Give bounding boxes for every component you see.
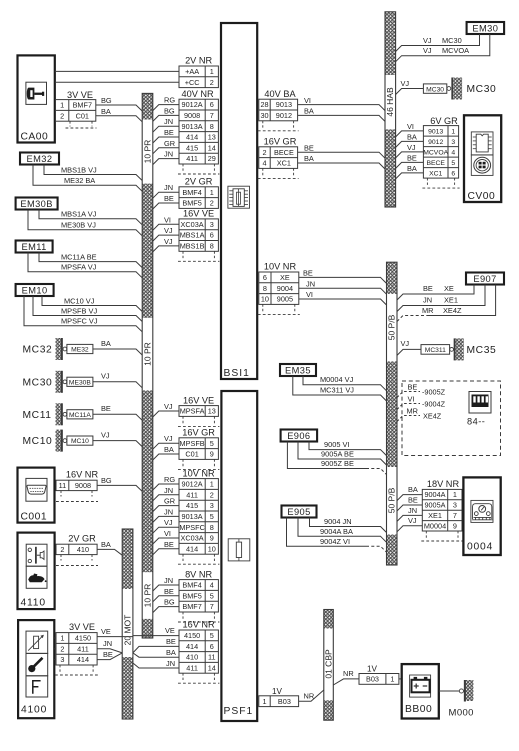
svg-text:GR: GR [164, 139, 175, 148]
svg-text:2: 2 [60, 545, 64, 554]
svg-text:411: 411 [186, 154, 198, 163]
svg-text:MPSFC: MPSFC [179, 523, 205, 532]
svg-text:BA: BA [164, 445, 174, 454]
svg-text:BE: BE [423, 284, 433, 293]
svg-text:GR: GR [164, 497, 175, 506]
svg-text:BG: BG [164, 598, 175, 607]
svg-text:VJ: VJ [408, 516, 417, 525]
svg-text:13: 13 [208, 407, 216, 416]
svg-text:10V NR: 10V NR [264, 262, 297, 272]
svg-text:VE: VE [165, 626, 175, 635]
svg-text:BMF5: BMF5 [182, 591, 201, 600]
svg-text:9005A: 9005A [424, 501, 445, 510]
svg-text:VJ: VJ [401, 79, 410, 88]
svg-text:VJ: VJ [101, 430, 110, 439]
svg-text:VI: VI [408, 394, 415, 403]
svg-text:NR: NR [304, 691, 315, 700]
svg-text:JN: JN [306, 279, 315, 288]
diagnostic connector C001 [18, 468, 55, 523]
svg-text:11: 11 [59, 481, 67, 490]
svg-text:MC10 VJ: MC10 VJ [64, 296, 95, 305]
instrument cluster 0004 [463, 477, 500, 555]
connector table B03 1 [359, 674, 399, 685]
svg-text:3: 3 [60, 655, 64, 664]
svg-text:414: 414 [186, 642, 198, 651]
svg-text:9005Z BE: 9005Z BE [321, 459, 354, 468]
svg-text:BMF7: BMF7 [182, 602, 201, 611]
svg-text:411: 411 [77, 644, 89, 653]
svg-text:VJ: VJ [164, 226, 173, 235]
harness bar 20 MOT [122, 529, 133, 589]
svg-text:2: 2 [262, 148, 266, 157]
svg-text:VJ: VJ [164, 237, 173, 246]
svg-text:28: 28 [260, 100, 268, 109]
svg-text:BECE: BECE [426, 160, 445, 167]
svg-text:414: 414 [77, 655, 89, 664]
harness bar 01 CBP [324, 610, 334, 629]
svg-text:JN: JN [408, 506, 417, 515]
svg-text:VJ: VJ [401, 339, 410, 348]
svg-text:BG: BG [101, 476, 112, 485]
svg-text:C01: C01 [76, 111, 89, 120]
svg-text:1: 1 [451, 128, 455, 135]
wire CA00 +AA [55, 70, 179, 72]
svg-text:5: 5 [451, 160, 455, 167]
svg-text:5: 5 [210, 439, 214, 448]
svg-text:C001: C001 [21, 512, 48, 523]
svg-text:+AA: +AA [185, 67, 199, 76]
svg-text:84--: 84-- [467, 417, 485, 427]
svg-text:13: 13 [208, 133, 216, 142]
svg-text:01 CBP: 01 CBP [323, 649, 333, 679]
svg-text:9: 9 [453, 521, 457, 530]
svg-text:9004A BA: 9004A BA [320, 527, 353, 536]
svg-text:3: 3 [210, 501, 214, 510]
svg-text:XE4Z: XE4Z [443, 306, 462, 315]
svg-text:BE: BE [164, 128, 174, 137]
svg-text:E905: E905 [287, 507, 310, 517]
harness bar 46 HAB [385, 12, 396, 75]
svg-text:NR: NR [343, 669, 354, 678]
ECU CV00 [464, 115, 501, 202]
svg-text:MC311: MC311 [425, 347, 446, 354]
84 DIP switch icon [469, 392, 491, 414]
svg-text:4: 4 [451, 149, 455, 156]
svg-text:BA: BA [101, 107, 111, 116]
svg-text:E907: E907 [473, 274, 496, 284]
svg-text:10: 10 [261, 295, 269, 304]
svg-text:VJ: VJ [164, 402, 173, 411]
svg-text:3: 3 [210, 220, 214, 229]
svg-text:1V: 1V [272, 687, 283, 696]
svg-text:4: 4 [210, 581, 214, 590]
option unit 84-- [402, 381, 501, 456]
CA00 key icon [26, 82, 47, 104]
svg-text:3V VE: 3V VE [69, 622, 95, 632]
svg-text:BMF5: BMF5 [182, 199, 201, 208]
svg-text:MPSFB VJ: MPSFB VJ [61, 306, 97, 315]
svg-text:9012: 9012 [276, 111, 292, 120]
C001 connector icon [26, 478, 47, 501]
svg-text:M000: M000 [449, 708, 474, 719]
dashed extension under CA00 table [69, 121, 71, 126]
svg-text:MBS1B VJ: MBS1B VJ [61, 165, 97, 174]
svg-text:9008: 9008 [75, 481, 91, 490]
svg-text:MC10: MC10 [23, 436, 53, 447]
svg-text:VJ: VJ [423, 46, 432, 55]
svg-text:M0004: M0004 [424, 521, 446, 530]
svg-text:VJ: VJ [407, 143, 416, 152]
svg-text:9013: 9013 [428, 128, 443, 135]
svg-text:6: 6 [451, 170, 455, 177]
svg-text:VE: VE [101, 627, 111, 636]
component E906 [281, 430, 318, 442]
svg-text:2: 2 [210, 78, 214, 87]
svg-text:9012: 9012 [428, 139, 443, 146]
ECU PSF1 [221, 391, 257, 721]
svg-text:9004A: 9004A [424, 490, 445, 499]
svg-text:16V GR: 16V GR [182, 428, 215, 438]
svg-text:MPSFC VJ: MPSFC VJ [61, 317, 98, 326]
svg-text:9005: 9005 [277, 295, 293, 304]
svg-text:XC1: XC1 [277, 159, 291, 168]
svg-text:4110: 4110 [21, 598, 46, 609]
svg-text:6: 6 [263, 273, 267, 282]
svg-text:10V NR: 10V NR [183, 468, 216, 478]
svg-text:9013: 9013 [276, 100, 292, 109]
svg-text:BE: BE [164, 540, 174, 549]
svg-text:46 HAB: 46 HAB [385, 87, 395, 117]
svg-text:JN: JN [164, 183, 173, 192]
svg-text:VI: VI [304, 96, 311, 105]
svg-text:8: 8 [263, 284, 267, 293]
svg-text:8: 8 [210, 242, 214, 251]
svg-text:8: 8 [210, 122, 214, 131]
wire CA00 +CC [55, 81, 179, 83]
svg-text:BA: BA [304, 154, 314, 163]
svg-text:50 P/B: 50 P/B [387, 487, 397, 513]
svg-text:1: 1 [210, 188, 214, 197]
component EM10 [16, 284, 54, 296]
svg-text:40V NR: 40V NR [182, 89, 215, 99]
svg-text:VJ: VJ [423, 36, 432, 45]
svg-text:10 PR: 10 PR [142, 342, 152, 366]
svg-text:MBS1A: MBS1A [180, 231, 205, 240]
svg-text:VJ: VJ [101, 372, 110, 381]
svg-text:9005A BE: 9005A BE [321, 449, 354, 458]
svg-text:1: 1 [210, 480, 214, 489]
svg-text:10 PR: 10 PR [142, 140, 152, 164]
svg-text:BE: BE [166, 637, 176, 646]
svg-text:BE: BE [303, 269, 313, 278]
svg-text:7: 7 [453, 511, 457, 520]
svg-text:5: 5 [210, 512, 214, 521]
svg-text:16V NR: 16V NR [66, 470, 99, 480]
svg-text:VI: VI [306, 290, 313, 299]
svg-text:40V BA: 40V BA [264, 89, 296, 99]
svg-text:BE: BE [164, 194, 174, 203]
svg-text:EM30B: EM30B [20, 199, 53, 209]
svg-text:VI: VI [164, 529, 171, 538]
svg-text:1: 1 [262, 697, 266, 706]
svg-text:BE: BE [407, 153, 417, 162]
svg-text:410: 410 [77, 545, 89, 554]
svg-text:4100: 4100 [21, 705, 47, 716]
svg-text:4: 4 [262, 159, 266, 168]
svg-text:EM11: EM11 [21, 242, 46, 252]
svg-text:1: 1 [390, 675, 394, 684]
svg-text:6: 6 [210, 100, 214, 109]
ignition switch CA00 [18, 55, 55, 142]
svg-text:XC1: XC1 [429, 170, 442, 177]
svg-text:BG: BG [101, 96, 112, 105]
svg-text:2V GR: 2V GR [185, 176, 213, 186]
svg-text:BA: BA [407, 164, 417, 173]
4110 switch icon [26, 544, 47, 566]
engine sensor unit 4100 [18, 620, 54, 718]
4100 thermometer icon [26, 653, 48, 675]
svg-text:18V NR: 18V NR [427, 479, 460, 489]
svg-text:XE: XE [280, 273, 290, 282]
svg-text:411: 411 [186, 663, 198, 672]
svg-text:BSI1: BSI1 [224, 368, 250, 379]
svg-text:M0004 VJ: M0004 VJ [320, 375, 354, 384]
svg-text:XE: XE [444, 284, 454, 293]
svg-text:2: 2 [210, 199, 214, 208]
svg-text:9005 VI: 9005 VI [324, 440, 349, 449]
svg-text:JN: JN [164, 507, 173, 516]
svg-text:BA: BA [304, 107, 314, 116]
svg-text:6: 6 [210, 231, 214, 240]
svg-text:2: 2 [210, 490, 214, 499]
svg-text:ME30B VJ: ME30B VJ [61, 221, 96, 230]
svg-text:BA: BA [408, 485, 418, 494]
harness bar 10 PR [142, 93, 153, 119]
svg-text:2: 2 [60, 644, 64, 653]
svg-text:9004: 9004 [277, 284, 293, 293]
svg-text:414: 414 [186, 544, 198, 553]
svg-text:XC03A: XC03A [181, 534, 204, 543]
svg-text:MPSFA: MPSFA [180, 407, 205, 416]
svg-text:2: 2 [60, 111, 64, 120]
svg-text:14: 14 [208, 143, 216, 152]
harness bar 50 P/B [387, 262, 398, 294]
svg-text:9013A: 9013A [182, 512, 203, 521]
svg-text:BE: BE [408, 495, 418, 504]
svg-text:XE1: XE1 [444, 296, 458, 305]
svg-text:16V NR: 16V NR [183, 620, 216, 630]
svg-text:VJ: VJ [164, 518, 173, 527]
svg-text:VI: VI [164, 215, 171, 224]
svg-text:BE: BE [304, 143, 314, 152]
component E907 [466, 273, 504, 285]
svg-text:PSF1: PSF1 [224, 706, 254, 717]
svg-text:9012A: 9012A [182, 100, 203, 109]
svg-text:8V NR: 8V NR [185, 569, 212, 579]
svg-text:29: 29 [208, 154, 216, 163]
svg-text:-9005Z: -9005Z [422, 387, 446, 396]
svg-text:BECE: BECE [274, 148, 294, 157]
svg-text:9012A: 9012A [182, 480, 203, 489]
svg-text:JN: JN [164, 150, 173, 159]
svg-text:16V VE: 16V VE [183, 209, 214, 219]
svg-text:5: 5 [210, 631, 214, 640]
svg-text:3V VE: 3V VE [67, 90, 93, 100]
svg-text:9008: 9008 [184, 111, 200, 120]
svg-text:+CC: +CC [185, 78, 200, 87]
svg-text:EM10: EM10 [22, 285, 48, 295]
svg-text:MR: MR [422, 306, 434, 315]
svg-text:MC311 VJ: MC311 VJ [320, 386, 354, 395]
svg-text:6V GR: 6V GR [430, 116, 458, 126]
svg-text:1V: 1V [367, 664, 378, 673]
component EM30 [467, 22, 505, 34]
svg-text:1: 1 [60, 634, 64, 643]
svg-text:4150: 4150 [184, 631, 200, 640]
svg-text:BE: BE [103, 650, 113, 659]
svg-text:JN: JN [423, 296, 432, 305]
svg-text:3: 3 [453, 501, 457, 510]
svg-text:10: 10 [208, 544, 216, 553]
svg-text:CA00: CA00 [21, 132, 49, 143]
svg-text:MBS1A VJ: MBS1A VJ [61, 210, 97, 219]
ECU BSI1 [221, 23, 257, 379]
battery BB00 [402, 664, 439, 718]
svg-text:8: 8 [210, 523, 214, 532]
svg-text:MBS1B: MBS1B [180, 242, 205, 251]
svg-text:MC11: MC11 [23, 410, 52, 421]
svg-text:415: 415 [186, 143, 198, 152]
PSF1 internal fuse icon [228, 539, 250, 561]
svg-text:BMF7: BMF7 [73, 101, 92, 110]
svg-text:MC32: MC32 [23, 345, 53, 356]
svg-text:XC03A: XC03A [181, 220, 204, 229]
svg-text:JN: JN [164, 117, 173, 126]
svg-text:9013A: 9013A [182, 122, 203, 131]
svg-text:MPSFB: MPSFB [180, 439, 205, 448]
svg-text:414: 414 [186, 133, 198, 142]
svg-text:BE: BE [101, 404, 111, 413]
svg-text:BA: BA [166, 648, 176, 657]
svg-text:MC30: MC30 [426, 86, 444, 93]
svg-text:JN: JN [164, 576, 173, 585]
BB00 battery icon [410, 675, 431, 697]
component EM11 [16, 241, 53, 253]
svg-text:14: 14 [208, 663, 216, 672]
svg-text:0004: 0004 [467, 542, 493, 553]
svg-text:CV00: CV00 [468, 191, 496, 202]
svg-text:BA: BA [101, 339, 111, 348]
svg-text:JN: JN [103, 639, 112, 648]
component EM35 [280, 364, 316, 376]
svg-text:9: 9 [210, 534, 214, 543]
svg-text:ME32: ME32 [71, 347, 89, 354]
svg-text:2V GR: 2V GR [68, 534, 96, 544]
svg-text:1: 1 [453, 490, 457, 499]
svg-text:MPSFA VJ: MPSFA VJ [61, 263, 97, 272]
wire B03 to BB00 [399, 678, 402, 680]
svg-text:BE: BE [408, 382, 418, 391]
svg-text:C01: C01 [185, 450, 198, 459]
svg-text:7: 7 [210, 111, 214, 120]
svg-text:EM30: EM30 [472, 23, 498, 33]
svg-text:1: 1 [210, 67, 214, 76]
svg-text:BA: BA [101, 540, 111, 549]
svg-text:MCVOA: MCVOA [442, 46, 469, 55]
CV00 round connector icon [471, 155, 493, 176]
svg-text:XE4Z: XE4Z [423, 411, 442, 420]
svg-text:411: 411 [186, 490, 198, 499]
svg-text:410: 410 [186, 653, 198, 662]
svg-text:XE1: XE1 [428, 511, 442, 520]
svg-text:9: 9 [210, 450, 214, 459]
oil pressure switch 4110 [18, 533, 55, 610]
svg-text:2V NR: 2V NR [185, 56, 212, 66]
svg-text:9004 JN: 9004 JN [324, 517, 352, 526]
svg-text:JN: JN [164, 486, 173, 495]
connector table PSF1 B03 [259, 696, 299, 707]
svg-text:MC10: MC10 [71, 438, 89, 445]
svg-text:MC11A BE: MC11A BE [61, 252, 97, 261]
svg-text:MCVOA: MCVOA [423, 149, 448, 156]
svg-text:E906: E906 [287, 431, 310, 441]
svg-text:VJ: VJ [164, 434, 173, 443]
component EM32 [20, 153, 59, 165]
svg-text:-9004Z: -9004Z [422, 399, 446, 408]
svg-text:VI: VI [407, 122, 414, 131]
svg-text:MC30: MC30 [23, 377, 53, 388]
dashed extension under 4110 table [60, 555, 62, 561]
svg-text:RG: RG [164, 475, 175, 484]
svg-text:MC30: MC30 [442, 36, 462, 45]
svg-text:JN: JN [166, 659, 175, 668]
svg-text:MR: MR [407, 406, 419, 415]
svg-text:ME32 BA: ME32 BA [64, 176, 95, 185]
wire BB00 to M000 [439, 690, 460, 692]
svg-text:9004Z VI: 9004Z VI [320, 537, 350, 546]
svg-text:B03: B03 [366, 675, 379, 684]
dashed extension under C001 table [60, 491, 62, 497]
4110 oil icon [26, 566, 47, 588]
svg-text:B03: B03 [278, 697, 291, 706]
svg-text:BA: BA [407, 132, 417, 141]
svg-text:11: 11 [208, 653, 216, 662]
ground M000 [459, 689, 463, 693]
svg-text:RG: RG [164, 96, 175, 105]
svg-text:MC35: MC35 [467, 345, 497, 356]
svg-text:10 PR: 10 PR [142, 584, 152, 608]
svg-text:BG: BG [164, 106, 175, 115]
svg-text:3: 3 [451, 139, 455, 146]
svg-text:5: 5 [210, 591, 214, 600]
svg-text:ME30B: ME30B [69, 379, 91, 386]
component E905 [282, 506, 317, 518]
svg-text:16V VE: 16V VE [183, 395, 214, 405]
svg-text:7: 7 [210, 602, 214, 611]
CV00 chip icon [471, 132, 493, 155]
svg-text:BMF4: BMF4 [182, 581, 201, 590]
svg-text:16V GR: 16V GR [264, 137, 297, 147]
svg-text:BMF4: BMF4 [182, 188, 201, 197]
BSI1 internal IC icon [228, 186, 250, 208]
4100 thermistor icon [26, 631, 48, 653]
svg-text:415: 415 [186, 501, 198, 510]
svg-text:EM35: EM35 [285, 365, 311, 375]
svg-text:20 MOT: 20 MOT [122, 615, 132, 646]
4100 F icon [26, 676, 48, 697]
svg-text:4150: 4150 [75, 634, 91, 643]
svg-text:50 P/B: 50 P/B [387, 314, 397, 340]
